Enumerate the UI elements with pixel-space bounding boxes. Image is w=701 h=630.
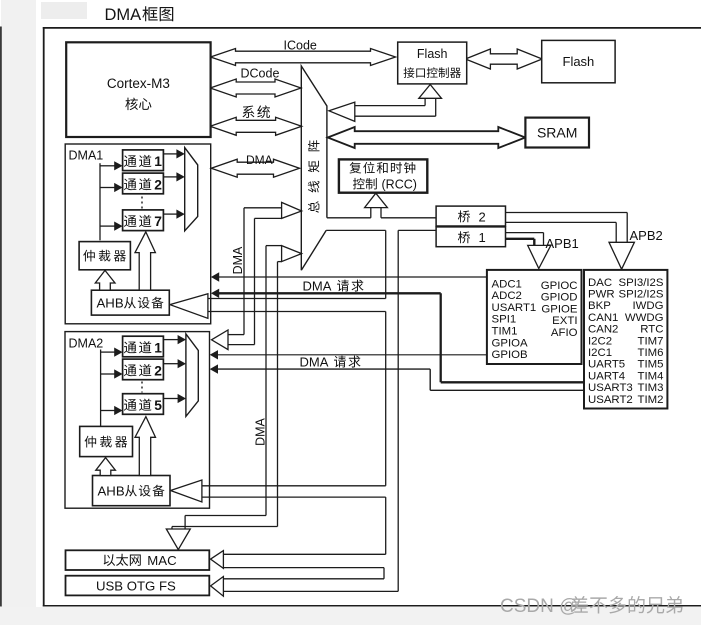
svg-text:USB OTG FS: USB OTG FS bbox=[96, 578, 176, 593]
wire backbone channel right line bbox=[397, 230, 399, 591]
Cortex-M3 core box bbox=[66, 42, 210, 137]
wire bridge1 to APB1 lower thick bbox=[506, 238, 535, 240]
bus matrix vertical label bbox=[308, 140, 320, 212]
svg-text:Flash: Flash bbox=[563, 54, 595, 69]
svg-text:TIM2: TIM2 bbox=[638, 394, 664, 406]
wire DMA2 master channel bottom turn bbox=[228, 334, 244, 336]
svg-text:APB1: APB1 bbox=[546, 236, 579, 251]
wire channel into Ethernet MAC bbox=[223, 553, 385, 555]
svg-text:TIM6: TIM6 bbox=[638, 347, 664, 359]
APB1 peripherals box bbox=[584, 270, 667, 409]
faint gray smudge left of title bbox=[41, 2, 87, 19]
DMA1 channel to funnel arrow bbox=[163, 213, 177, 215]
wire DMA request line 2 to DMA2 bbox=[217, 368, 430, 370]
DMA1 channel 1 box bbox=[123, 150, 164, 171]
wire Ethernet master channel vertical bbox=[265, 246, 267, 516]
diagram outer border bbox=[43, 27, 701, 29]
arrowhead into bus matrix from Ethernet channel bbox=[282, 246, 302, 262]
DMA1 small arrow AHB to arbiter bbox=[95, 270, 115, 290]
arrowhead into DMA1 AHB slave bbox=[170, 294, 208, 319]
APB2 peripherals box bbox=[487, 270, 582, 364]
arrowhead down into Ethernet MAC bbox=[166, 529, 190, 550]
wire DMA request line 2 to DMA1 thick bbox=[217, 292, 441, 294]
DMA1 channel 2 box bbox=[123, 173, 164, 194]
svg-text:ICode: ICode bbox=[284, 39, 317, 53]
wire DMA2 master channel top turn bbox=[244, 207, 282, 209]
system bus double arrow bbox=[210, 117, 301, 135]
DMA2 feeder branch arrow bbox=[101, 373, 116, 375]
svg-text:5: 5 bbox=[154, 398, 162, 413]
DMA2 request feeder line bbox=[100, 350, 102, 427]
ICode double arrow bbox=[211, 49, 396, 66]
DMA1 feeder branch arrow bbox=[100, 165, 115, 167]
svg-text:7: 7 bbox=[154, 214, 162, 229]
svg-text:DCode: DCode bbox=[241, 67, 280, 81]
wire channel into DMA2 AHB slave bbox=[202, 485, 386, 487]
svg-text:Cortex-M3: Cortex-M3 bbox=[107, 76, 170, 91]
svg-text:ADC2: ADC2 bbox=[492, 290, 522, 302]
wire RCC arrow shaft bbox=[370, 207, 372, 218]
system bus label bbox=[242, 105, 270, 118]
DMA1 arbiter box bbox=[79, 242, 130, 270]
arrowhead into Ethernet MAC right side bbox=[211, 551, 224, 569]
DMA2 channel to funnel arrow bbox=[163, 398, 178, 400]
DMA1 request feeder line bbox=[99, 163, 101, 240]
svg-text:AHB: AHB bbox=[98, 484, 125, 499]
DMA1 channel dots bbox=[141, 197, 143, 209]
svg-text:DMA1: DMA1 bbox=[69, 149, 104, 163]
svg-text:GPIOD: GPIOD bbox=[541, 292, 578, 304]
wire bridge2 to APB2 upper bbox=[506, 212, 628, 214]
svg-text:CAN2: CAN2 bbox=[588, 324, 618, 336]
svg-text:SPI3/I2S: SPI3/I2S bbox=[619, 277, 664, 289]
arrowhead APB1 down bbox=[528, 245, 551, 268]
wire channel into DMA1 AHB slave bbox=[208, 298, 386, 300]
DMA2 feeder branch arrow bbox=[101, 410, 116, 412]
svg-text:DMA: DMA bbox=[300, 354, 329, 369]
svg-text:IWDG: IWDG bbox=[632, 300, 663, 312]
wire backbone channel left segments bbox=[385, 230, 387, 298]
DMA1 AHB slave box bbox=[91, 290, 169, 315]
svg-text:TIM7: TIM7 bbox=[638, 335, 664, 347]
bus matrix bbox=[301, 66, 327, 270]
SRAM box bbox=[525, 118, 589, 148]
wire DMA request line 1 to DMA2 bbox=[217, 354, 487, 356]
USB OTG FS box bbox=[66, 576, 210, 596]
wire bus-matrix to flash-interface channel bbox=[355, 105, 425, 107]
svg-text:BKP: BKP bbox=[588, 300, 611, 312]
arrowhead into bus matrix from DMA2 master channel bbox=[282, 202, 302, 218]
DMA2 output funnel bbox=[186, 334, 198, 417]
svg-text:1: 1 bbox=[479, 230, 486, 245]
DMA1 master double arrow bbox=[211, 159, 299, 177]
bottom gray band bbox=[0, 607, 701, 625]
svg-text:Flash: Flash bbox=[417, 47, 448, 61]
solid arrowhead DMA request into DMA2 bbox=[210, 350, 218, 359]
svg-text:DMA2: DMA2 bbox=[69, 337, 104, 351]
wire backbone jog between MAC and USB channels bbox=[383, 568, 385, 579]
vertical DMA label near DMA1 bbox=[231, 246, 245, 274]
DMA1 outer box bbox=[65, 144, 211, 324]
svg-text:AHB: AHB bbox=[97, 296, 124, 311]
DMA1 output funnel bbox=[185, 148, 198, 231]
DMA2 channel to funnel arrow bbox=[163, 339, 178, 341]
arrowhead into DMA2 from master channel bbox=[212, 330, 229, 350]
vertical DMA label near DMA2 bbox=[254, 417, 268, 445]
svg-text:TIM4: TIM4 bbox=[638, 370, 664, 382]
arrowhead into DMA2 AHB slave bbox=[171, 480, 202, 502]
svg-text:TIM1: TIM1 bbox=[492, 326, 518, 338]
svg-text:GPIOA: GPIOA bbox=[492, 337, 528, 349]
svg-text:I2C2: I2C2 bbox=[588, 335, 612, 347]
svg-text:WWDG: WWDG bbox=[625, 312, 664, 324]
DMA1 channel to funnel arrow bbox=[163, 176, 177, 178]
flash interface controller box bbox=[398, 42, 467, 84]
bridge 1 box bbox=[436, 227, 505, 247]
svg-text:UART5: UART5 bbox=[588, 359, 625, 371]
wire bridge2 to APB2 lower bbox=[506, 221, 617, 223]
svg-text:EXTI: EXTI bbox=[552, 315, 577, 327]
DMA2 channel dots bbox=[141, 382, 143, 393]
svg-text:DMA: DMA bbox=[254, 417, 268, 445]
bus matrix to SRAM double arrow bbox=[328, 127, 526, 148]
svg-text:GPIOE: GPIOE bbox=[541, 303, 577, 315]
wire Ethernet master channel bottom turn bbox=[185, 515, 266, 517]
DMA1 channel 7 box bbox=[123, 210, 164, 231]
svg-text:(RCC): (RCC) bbox=[382, 178, 417, 192]
svg-text:2: 2 bbox=[154, 177, 162, 192]
svg-text:AFIO: AFIO bbox=[551, 327, 578, 339]
svg-text:CSDN @: CSDN @ bbox=[500, 596, 578, 617]
DMA2 outer box bbox=[65, 332, 210, 509]
svg-text:TIM3: TIM3 bbox=[638, 382, 664, 394]
solid arrowhead DMA request into DMA2 bbox=[210, 364, 218, 373]
DMA2 small arrow AHB to arbiter bbox=[96, 458, 116, 476]
DMA2 big arrow AHB to channel5 bbox=[135, 417, 156, 476]
svg-text:CAN1: CAN1 bbox=[588, 312, 618, 324]
solid arrowhead DMA request into DMA1 bbox=[211, 272, 219, 281]
wire bus-matrix to bridges channel upper bbox=[327, 217, 371, 219]
DCode double arrow bbox=[210, 79, 301, 97]
svg-text:GPIOC: GPIOC bbox=[541, 280, 578, 292]
svg-text:DAC: DAC bbox=[588, 277, 612, 289]
wire bus-matrix to bridges channel lower bbox=[326, 229, 386, 231]
arrowhead up into flash interface bbox=[419, 85, 442, 99]
wire Ethernet master channel top turn bbox=[266, 245, 282, 247]
svg-text:GPIOB: GPIOB bbox=[492, 349, 528, 361]
arrowhead into bus matrix from flash-interface channel bbox=[329, 102, 355, 121]
wire bridge1 to APB1 upper bbox=[506, 232, 544, 234]
Ethernet MAC box bbox=[66, 550, 210, 570]
svg-text:I2C1: I2C1 bbox=[588, 347, 612, 359]
svg-text:SRAM: SRAM bbox=[537, 125, 577, 141]
DMA1 big arrow AHB to channel7 bbox=[135, 232, 155, 290]
wire DMA request line 1 to DMA1 bbox=[217, 276, 487, 278]
arrowhead RCC up arrow bbox=[365, 193, 388, 207]
DMA2 channel 1 box bbox=[123, 336, 164, 357]
bridge 2 box bbox=[436, 206, 505, 226]
svg-text:SPI2/I2S: SPI2/I2S bbox=[619, 289, 664, 301]
DMA2 feeder branch arrow bbox=[101, 351, 116, 353]
DMA1 channel to funnel arrow bbox=[163, 153, 177, 155]
svg-text:UART4: UART4 bbox=[588, 370, 625, 382]
Flash box bbox=[542, 40, 615, 82]
svg-text:DMA: DMA bbox=[246, 153, 273, 167]
svg-text:DMA: DMA bbox=[105, 6, 142, 24]
arrowhead APB2 down bbox=[609, 242, 634, 269]
svg-text:TIM5: TIM5 bbox=[638, 359, 664, 371]
wire Ethernet down-arrow shaft bbox=[184, 516, 186, 530]
arrowhead into USB OTG FS right side bbox=[211, 577, 224, 597]
svg-text:2: 2 bbox=[154, 363, 162, 378]
DMA2 arbiter box bbox=[80, 426, 133, 456]
svg-text:MAC: MAC bbox=[147, 553, 177, 568]
DMA1 feeder branch arrow bbox=[100, 187, 115, 189]
svg-text:ADC1: ADC1 bbox=[492, 278, 522, 290]
wire DMA2 master channel vertical bbox=[243, 208, 245, 335]
svg-text:1: 1 bbox=[154, 341, 162, 356]
svg-text:DMA: DMA bbox=[231, 246, 245, 274]
solid arrowhead DMA request into DMA1 bbox=[211, 289, 219, 298]
svg-text:DMA: DMA bbox=[303, 278, 332, 293]
svg-text:PWR: PWR bbox=[588, 289, 615, 301]
svg-text:RTC: RTC bbox=[640, 324, 663, 336]
left page edge line bbox=[0, 27, 2, 607]
left gray gutter band bbox=[1, 0, 36, 625]
RCC reset and clock control box bbox=[339, 159, 427, 192]
DMA2 channel 2 box bbox=[123, 359, 164, 380]
svg-text:APB2: APB2 bbox=[630, 228, 663, 243]
svg-text:USART1: USART1 bbox=[492, 302, 537, 314]
DMA2 channel 5 box bbox=[123, 394, 164, 415]
wire channel into USB OTG FS bbox=[223, 578, 384, 580]
DMA2 AHB slave box bbox=[93, 476, 171, 506]
svg-text:USART2: USART2 bbox=[588, 394, 633, 406]
svg-text:SPI1: SPI1 bbox=[492, 314, 517, 326]
svg-text:1: 1 bbox=[154, 154, 162, 169]
DMA2 channel to funnel arrow bbox=[163, 363, 178, 365]
DMA1 feeder branch arrow bbox=[100, 225, 115, 227]
flash interface to flash double arrow bbox=[465, 49, 542, 69]
svg-text:USART3: USART3 bbox=[588, 382, 633, 394]
svg-text:2: 2 bbox=[479, 209, 486, 224]
